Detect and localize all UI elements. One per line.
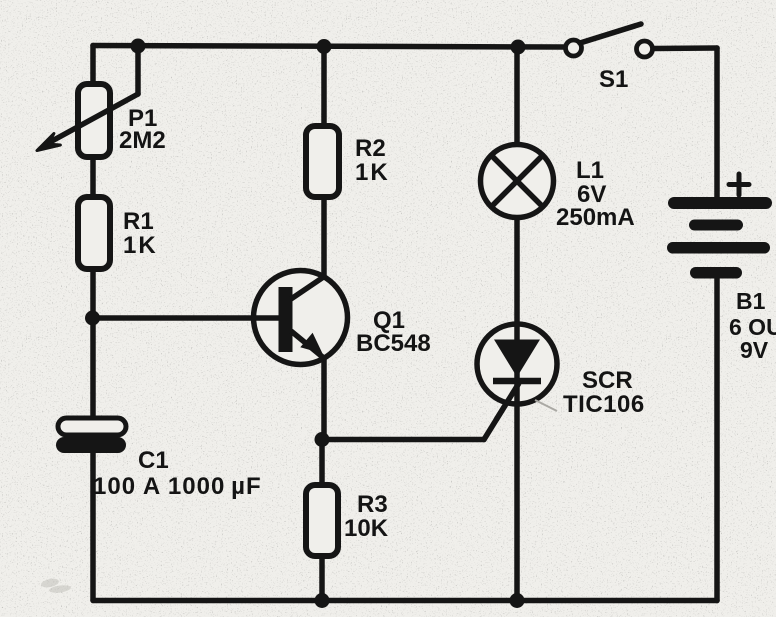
battery plus sign [729, 174, 749, 195]
svg-text:L1: L1 [576, 157, 604, 184]
svg-text:SCR: SCR [582, 367, 633, 394]
battery B1 [667, 197, 772, 279]
wire base [93, 315, 280, 321]
SCR U1 [477, 324, 557, 420]
resistor R3 [306, 485, 338, 556]
potentiometer P1 body [78, 84, 110, 157]
svg-text:1K: 1K [355, 159, 390, 186]
wire emitter [321, 358, 327, 440]
svg-text:2M2: 2M2 [119, 127, 166, 154]
wire R2 branch upper [321, 47, 327, 129]
node junction bottom-R3 [315, 593, 330, 608]
smudge bottom-left (paper artifact) [40, 577, 71, 594]
svg-text:R1: R1 [123, 208, 154, 235]
svg-text:TIC106: TIC106 [563, 391, 645, 418]
wire left rail [90, 46, 96, 601]
node junction top-left (wiper tap) [131, 39, 146, 54]
svg-text:1K: 1K [123, 232, 158, 259]
node junction gate [315, 432, 330, 447]
node junction base [85, 311, 100, 326]
wire SCR gate diagonal [484, 383, 519, 440]
svg-text:9V: 9V [740, 337, 769, 363]
wire R3 branch [319, 440, 325, 600]
node junction bottom-SCR [510, 593, 525, 608]
wire top rail right [654, 45, 717, 51]
wire collector [321, 196, 327, 277]
transistor Q1 [253, 271, 348, 365]
resistor R2 [306, 126, 339, 197]
wire bottom rail [93, 598, 717, 604]
svg-text:C1: C1 [138, 447, 169, 474]
svg-text:R2: R2 [355, 135, 386, 162]
lamp L1 [481, 145, 554, 218]
svg-text:S1: S1 [599, 66, 628, 93]
wire top rail left [93, 46, 564, 48]
wire right rail upper [714, 48, 720, 200]
svg-text:B1: B1 [736, 288, 766, 314]
svg-text:250mA: 250mA [556, 204, 635, 231]
svg-text:R3: R3 [357, 491, 388, 518]
svg-text:10K: 10K [344, 515, 389, 542]
node junction top-lamp [511, 40, 526, 55]
svg-text:100 A 1000 µF: 100 A 1000 µF [93, 473, 262, 500]
svg-text:BC548: BC548 [356, 330, 431, 357]
node junction top-R2 [317, 39, 332, 54]
wire right rail lower [714, 276, 720, 601]
switch S1 [566, 24, 653, 57]
wire SCR gate horizontal [322, 437, 484, 443]
potentiometer P1 wiper arrow [37, 45, 138, 151]
resistor R1 [78, 197, 110, 269]
wire lamp-SCR branch [514, 47, 520, 601]
capacitor C1 [56, 418, 126, 453]
